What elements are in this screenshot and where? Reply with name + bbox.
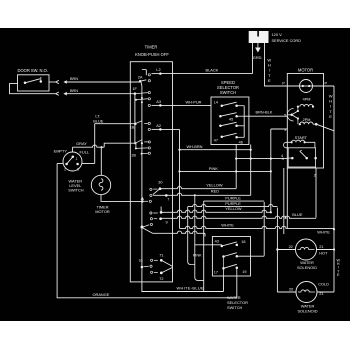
- svg-text:ORANGE: ORANGE: [93, 292, 110, 297]
- svg-text:SOLENOID: SOLENOID: [297, 265, 317, 270]
- svg-text:71: 71: [159, 253, 163, 257]
- svg-text:1: 1: [76, 157, 78, 161]
- svg-text:21: 21: [319, 292, 323, 296]
- svg-text:2A: 2A: [138, 75, 143, 79]
- svg-text:MOTOR: MOTOR: [298, 68, 313, 73]
- svg-text:FULL: FULL: [80, 150, 90, 155]
- svg-text:START: START: [295, 135, 308, 140]
- svg-text:70: 70: [138, 259, 142, 263]
- svg-text:20: 20: [289, 288, 293, 292]
- svg-text:30: 30: [158, 181, 162, 185]
- svg-text:L2: L2: [156, 67, 160, 72]
- svg-text:A3: A3: [156, 99, 161, 104]
- svg-text:WH-BRN: WH-BRN: [187, 144, 203, 149]
- svg-text:2B: 2B: [131, 153, 136, 157]
- svg-text:17: 17: [214, 270, 218, 274]
- svg-text:SWITCH: SWITCH: [227, 305, 243, 310]
- svg-text:18: 18: [241, 240, 245, 244]
- svg-text:BRN: BRN: [70, 89, 78, 93]
- svg-text:EMPTY: EMPTY: [54, 148, 68, 153]
- svg-text:MOTOR: MOTOR: [95, 209, 110, 214]
- svg-text:46: 46: [239, 140, 243, 144]
- svg-text:HOT: HOT: [319, 252, 328, 256]
- svg-text:19: 19: [242, 270, 246, 274]
- svg-text:PINK: PINK: [193, 253, 202, 258]
- svg-text:72: 72: [159, 277, 163, 281]
- svg-text:SWITCH: SWITCH: [68, 188, 84, 193]
- svg-text:1B: 1B: [130, 125, 135, 129]
- svg-text:9: 9: [166, 221, 168, 225]
- svg-text:BLUE: BLUE: [292, 212, 303, 217]
- svg-text:47: 47: [214, 138, 218, 142]
- svg-text:4: 4: [282, 157, 284, 161]
- svg-text:A2: A2: [156, 123, 161, 128]
- svg-text:2: 2: [64, 168, 66, 172]
- svg-text:2PM: 2PM: [303, 118, 311, 122]
- svg-text:YELLOW: YELLOW: [206, 183, 223, 188]
- svg-text:BLUE: BLUE: [93, 118, 104, 123]
- svg-text:E: E: [329, 114, 332, 119]
- svg-text:BRN-BLK: BRN-BLK: [256, 109, 273, 114]
- svg-text:BLACK: BLACK: [206, 68, 219, 73]
- svg-text:2: 2: [314, 173, 316, 177]
- svg-text:22: 22: [289, 245, 293, 249]
- svg-text:L4: L4: [214, 100, 218, 104]
- svg-text:P: P: [324, 80, 327, 85]
- svg-text:WH-PUR: WH-PUR: [186, 99, 202, 104]
- svg-text:TIMER: TIMER: [145, 45, 158, 50]
- svg-text:WHITE-BLUE: WHITE-BLUE: [177, 285, 205, 290]
- svg-text:WHITE: WHITE: [221, 223, 234, 228]
- svg-text:1F: 1F: [132, 87, 137, 91]
- svg-text:PINK: PINK: [209, 166, 218, 171]
- svg-text:SOLENOID: SOLENOID: [297, 308, 317, 313]
- svg-text:SERVICE CORD: SERVICE CORD: [272, 38, 302, 43]
- svg-text:YELLOW: YELLOW: [225, 206, 242, 211]
- svg-text:21: 21: [319, 245, 323, 249]
- svg-text:GRAY: GRAY: [76, 141, 87, 146]
- svg-text:GRD.: GRD.: [253, 55, 263, 60]
- svg-text:3: 3: [284, 128, 286, 132]
- svg-text:KNOB-PUSH OFF: KNOB-PUSH OFF: [135, 52, 169, 57]
- svg-text:5: 5: [284, 114, 286, 118]
- svg-text:E: E: [268, 78, 271, 83]
- svg-text:4PM: 4PM: [303, 97, 311, 101]
- svg-text:DOOR SW. N.O.: DOOR SW. N.O.: [18, 68, 48, 73]
- svg-text:SWITCH: SWITCH: [220, 90, 236, 95]
- svg-text:45: 45: [229, 118, 233, 122]
- svg-text:43: 43: [215, 239, 219, 243]
- svg-text:BRN: BRN: [70, 77, 78, 81]
- svg-text:PURPLE: PURPLE: [225, 195, 241, 200]
- svg-text:COLD: COLD: [318, 283, 329, 287]
- svg-text:WHITE: WHITE: [317, 229, 330, 234]
- svg-text:RED: RED: [211, 189, 219, 194]
- svg-text:3: 3: [77, 168, 79, 172]
- svg-text:7: 7: [167, 197, 169, 201]
- svg-text:120 V.: 120 V.: [272, 32, 283, 37]
- svg-text:P: P: [282, 80, 285, 85]
